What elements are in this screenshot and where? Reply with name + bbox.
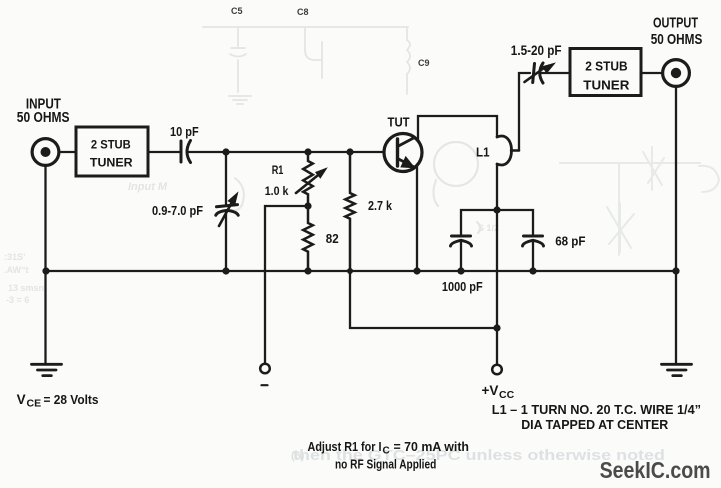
wire collector node down to bypass rail (496, 164, 498, 210)
ghost left margin text (faint) (4, 252, 44, 305)
svg-text:Adjust R1 for I: Adjust R1 for I (308, 439, 382, 454)
svg-text:2 STUB: 2 STUB (91, 137, 131, 151)
variable capacitor 0.9-7.0 pF (216, 193, 238, 226)
svg-text:DIA TAPPED AT CENTER: DIA TAPPED AT CENTER (521, 417, 669, 432)
node output ground junction (672, 267, 679, 274)
note L1 construction (492, 402, 701, 432)
capacitor 68 pF (523, 236, 544, 246)
node 2.7k bus crossing (347, 268, 353, 274)
node VCC junction (493, 324, 500, 331)
svg-text:0.9-7.0 pF: 0.9-7.0 pF (152, 203, 203, 218)
wire tuner2 to output connector (641, 72, 663, 74)
svg-text:10 pF: 10 pF (170, 124, 199, 139)
wire input connector to tuner1 (59, 151, 76, 153)
svg-text:82: 82 (326, 231, 339, 246)
svg-text:no RF Signal Applied: no RF Signal Applied (335, 456, 436, 471)
svg-text:C9: C9 (418, 58, 430, 68)
ghost bottom text (faint) (291, 447, 665, 464)
svg-text:1.0 k: 1.0 k (265, 184, 289, 198)
svg-text:TUNER: TUNER (90, 156, 133, 170)
ghost bleed-through circuit (faint) (203, 6, 430, 104)
wire 1000pF to ground bus (460, 240, 462, 271)
svg-text::31S’: :31S’ (4, 252, 26, 262)
ground symbol left (32, 364, 62, 375)
node 82 ground junction (304, 267, 311, 274)
svg-text:2 STUB: 2 STUB (585, 60, 627, 74)
svg-text:L1: L1 (476, 145, 490, 160)
svg-text:50 OHMS: 50 OHMS (651, 32, 703, 48)
node 68pF ground junction (529, 267, 536, 274)
svg-text:50 OHMS: 50 OHMS (17, 110, 70, 126)
wire C10pF to transistor base (189, 151, 384, 153)
wire 68pF to ground bus (532, 240, 534, 271)
+VCC terminal (492, 365, 502, 375)
wire bypass cap rail (461, 210, 533, 235)
svg-text:R1: R1 (272, 163, 284, 177)
capacitor 10 pF (181, 141, 191, 163)
node 1000pF ground junction (457, 267, 464, 274)
node variable cap ground junction (222, 267, 229, 274)
ghost right side bleed-through (faint) (560, 147, 719, 255)
label INPUT 50 OHMS (17, 96, 70, 126)
potentiometer R1 (296, 152, 326, 206)
svg-text:68 pF: 68 pF (555, 234, 585, 249)
svg-text:1000 pF: 1000 pF (442, 279, 483, 294)
resistor 82 (303, 206, 313, 271)
svg-text:C5: C5 (231, 6, 243, 16)
node base/C10 junction (222, 148, 229, 155)
wire emitter to ground bus (416, 165, 418, 272)
svg-text:= 70 mA with: = 70 mA with (394, 439, 470, 454)
svg-text:2.7 k: 2.7 k (368, 198, 393, 213)
output connector (663, 60, 690, 87)
svg-text:= 28 Volts: = 28 Volts (44, 392, 99, 407)
inductor L1 single-turn loop (497, 136, 519, 165)
node 2.7k top junction (346, 148, 353, 155)
label OUTPUT 50 OHMS (651, 16, 703, 48)
svg-text:CE: CE (27, 398, 42, 410)
bias terminal (minus) (260, 364, 270, 386)
svg-text:+V: +V (482, 383, 499, 398)
node emitter ground junction (413, 267, 420, 274)
ghost center bleed-through marks (faint) (232, 142, 480, 233)
transistor TUT (384, 134, 422, 172)
wire top lead of variable cap (225, 152, 227, 204)
wire variable cap to tuner2 (542, 72, 571, 74)
node input ground junction (42, 267, 49, 274)
wire L1 tap up to variable cap (519, 73, 530, 151)
resistor 2.7k (345, 152, 354, 271)
input 2 stub tuner U1 (76, 127, 148, 176)
wire 2.7k bottom to VCC node (350, 271, 497, 328)
node R1 top junction (304, 148, 311, 155)
svg-text:C8: C8 (297, 7, 309, 17)
note adjust R1 (308, 439, 470, 471)
input connector (32, 139, 59, 166)
ground bus wire (46, 270, 676, 272)
label R1 1.0 k (265, 163, 289, 198)
wire R1 wiper feed to bias terminal (265, 206, 308, 363)
svg-text:.AW“t: .AW“t (4, 265, 29, 275)
svg-text:TUT: TUT (388, 115, 410, 130)
capacitor 1000 pF (451, 236, 472, 246)
svg-text:SeekIC.com: SeekIC.com (600, 457, 711, 483)
svg-text:C: C (383, 446, 390, 457)
output 2 stub tuner U2 (570, 49, 641, 96)
node bypass rail junction (493, 206, 500, 213)
svg-text:-3 = 6: -3 = 6 (6, 295, 29, 305)
wire tuner1 to C 10pF (148, 151, 179, 153)
svg-text:1.5-20 pF: 1.5-20 pF (511, 43, 562, 58)
wire input connector to ground (44, 166, 46, 364)
svg-text:CC: CC (499, 389, 515, 401)
label +VCC (482, 383, 515, 401)
svg-text:Input M: Input M (128, 181, 168, 193)
svg-text:V: V (17, 392, 26, 407)
variable capacitor 1.5-20 pF (525, 63, 555, 83)
wire collector up and over to L1 (418, 116, 497, 141)
svg-text:L1 – 1 TURN NO. 20 T.C. WIRE 1: L1 – 1 TURN NO. 20 T.C. WIRE 1/4” (492, 402, 701, 417)
svg-text:OUTPUT: OUTPUT (653, 16, 698, 32)
wire VCC feed down to terminal (496, 210, 498, 365)
label VCE = 28 Volts (17, 392, 99, 410)
svg-text:TUNER: TUNER (583, 78, 629, 92)
wire output connector down to ground (675, 87, 677, 364)
ground symbol right (662, 364, 692, 375)
wire variable cap to ground bus (225, 213, 227, 271)
svg-text:13 smsn: 13 smsn (8, 283, 44, 293)
node R1 bottom junction (304, 202, 311, 209)
